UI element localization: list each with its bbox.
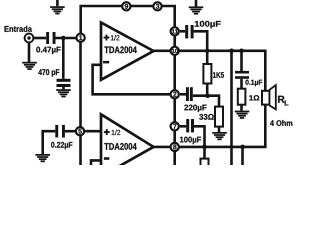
speaker RL horn [270,85,276,109]
node 2 [171,90,179,98]
label 0.22µF [51,142,72,149]
wire node G down (cut) [241,147,244,165]
capacitor C3 100µF bootstrap 1 stub [180,30,185,33]
label 4 Ohm [270,120,292,126]
op-amp U1A triangle [101,23,154,80]
op-amp U1B label TDA2004 [104,143,136,150]
resistor R3 1Ω body [238,89,246,105]
wire C1 to node 1 [56,37,81,40]
wire U1A output to node 10 [153,49,175,52]
label 100µF bottom [180,137,201,144]
ground under 0.22µF [35,154,50,162]
node 7 [171,122,179,130]
op-amp U1B label 1/2 [112,130,121,135]
label RL [278,96,288,106]
wire 0.22µF left to ground [43,131,56,154]
capacitor C3 100µF plates [185,25,193,38]
node 1 [76,34,84,42]
resistor R1 1K5 lead top [206,51,209,64]
wire C7 to output rail 2 [194,126,205,147]
ground under R3 [235,111,250,119]
resistor R4 1K5 lead (cut) [203,147,206,159]
node 10 [171,47,179,55]
label 1Ω [249,95,259,100]
wire connector to C1 [34,37,47,40]
capacitor C4 220µF stub [180,93,186,96]
wire U1B minus feedback down [91,160,101,165]
label 33Ω [199,114,214,120]
node 3 [153,2,161,10]
junction dot G [240,145,245,150]
op-amp U1B minus sign [104,157,109,160]
capacitor C5 0.1µF plates [235,71,249,79]
op-amp U1A minus sign [103,61,109,64]
junction dot B [205,49,210,54]
wire node 5 stub [81,130,101,133]
capacitor C7 100µF bootstrap 2 stub [180,125,186,128]
resistor R4 1K5 body (cut) [201,159,209,167]
wire node A to C2 [62,38,65,79]
label 0.1µF [245,80,262,87]
label Entrada [5,26,33,32]
label 470 pF [38,69,59,77]
wire right rail [173,31,176,165]
capacitor C1 0.47µF [46,32,55,44]
wire rail to C5 [240,51,243,71]
wire top rail [81,6,175,38]
label 0.47µF [36,47,60,54]
junction dot A [61,36,66,41]
junction dot D [229,49,234,54]
wire C5 to R3 [240,79,243,89]
wire crossing line out1 down [230,51,233,165]
capacitor C4 220µF plates [186,87,193,101]
capacitor C7 100µF plates [186,119,194,132]
op-amp U1A label 1/2 [111,35,120,40]
junction dot F [202,145,207,150]
op-amp U1A plus sign [104,35,110,41]
junction dot C [205,93,210,98]
label 1K5 [213,72,224,78]
wire C6 to node 5 [65,130,81,133]
node 8 [171,143,179,151]
wire left rail [79,38,82,165]
node 5 [76,127,84,135]
label 220µF [184,105,206,112]
op-amp U1B plus sign [104,129,110,135]
speaker RL driver [262,91,270,105]
wire C3 to output rail [194,31,208,51]
capacitor C2 470pF [57,79,71,87]
ground under C2 [56,89,71,97]
wire U1A minus feedback to node 2 [93,65,175,95]
wire C2 to ground [62,87,65,89]
connector J1 input [25,34,34,43]
resistor R2 33Ω body [215,107,223,127]
capacitor C6 0.22µF plates [55,125,65,138]
label 100µF top [195,21,221,28]
wire output rail 2 to speaker [175,105,266,147]
wire C4 to R2 [193,96,219,107]
resistor R3 lead bottom [240,105,243,111]
node 9 [122,2,130,10]
ground top-right [189,0,204,15]
wire connector ground drop [28,42,31,62]
resistor R2 lead bottom [218,127,221,133]
resistor R1 lead bottom [206,84,209,96]
node 11 [171,27,179,35]
resistor R1 1K5 body [203,64,211,84]
ground under connector [22,62,37,70]
junction dot E [239,49,244,54]
wire U1B output to node 8 [153,146,175,149]
wire output rail 1 to speaker [175,51,266,91]
op-amp U1B triangle [101,114,154,176]
ground under R2 [212,132,227,140]
ground top-left [50,0,65,14]
op-amp U1A label TDA2004 [104,46,136,53]
